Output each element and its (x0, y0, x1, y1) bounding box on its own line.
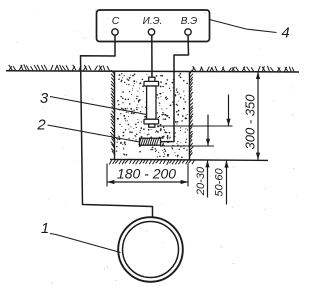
terminal I.E. (148, 29, 154, 35)
svg-text:180 - 200: 180 - 200 (117, 166, 176, 182)
pit bottom hatching (109, 159, 195, 164)
dimension 180-200 extension line left (106, 164, 108, 187)
dimension 20-30 lower shaft (205, 160, 209, 197)
instrument box 4 (97, 10, 210, 42)
leader line label 3 to electrode (50, 97, 147, 115)
wire V.E. terminal to block (161, 35, 189, 141)
pit left wall hatching (110, 70, 115, 155)
electrode 3 top cap (144, 81, 159, 86)
extension line at block bottom level (161, 145, 214, 147)
dimension 20-30 upper arrow (206, 115, 210, 146)
pit backfill stipple (116, 73, 188, 158)
block 2 (hatched electrode plate) (139, 138, 161, 145)
ground hatching left of pit (9, 64, 110, 70)
dimension line 300-350 (256, 72, 260, 160)
electrode 3 top nub (149, 77, 155, 82)
leader line label 1 to pipe (50, 234, 121, 253)
svg-text:3: 3 (40, 90, 49, 107)
dimension 50-60 upper arrow (226, 95, 230, 126)
pit left wall line (114, 71, 116, 159)
terminal C (112, 29, 118, 35)
dimension 50-60 lower shaft (224, 160, 228, 204)
leader line to label 4 (210, 20, 277, 33)
electrode 3 body (147, 86, 156, 119)
wire C terminal to pipe (81, 35, 153, 218)
svg-text:20-30: 20-30 (195, 166, 207, 196)
dimension line 180-200 (107, 180, 188, 184)
svg-text:В.Э: В.Э (181, 16, 197, 27)
electrode 3 bottom nub (149, 124, 155, 127)
svg-text:2: 2 (36, 117, 46, 134)
terminal V.E. (185, 29, 191, 35)
wire I.E. terminal to electrode (151, 35, 153, 78)
dimension 180-200 extension line right (187, 164, 189, 187)
pipe 1 outer circle (118, 217, 183, 282)
leader line label 2 to block (48, 125, 140, 142)
extension line at electrode bottom level (157, 125, 233, 127)
svg-text:4: 4 (281, 25, 289, 42)
electrode 3 bottom cap (144, 119, 159, 124)
ground hatching right of pit (192, 66, 294, 72)
pit right wall hatching (189, 70, 194, 157)
pipe 1 inner circle (123, 222, 179, 278)
svg-text:С: С (112, 15, 120, 27)
svg-text:300 - 350: 300 - 350 (243, 94, 258, 150)
svg-text:1: 1 (41, 220, 49, 237)
ground surface line (6, 71, 299, 72)
svg-text:И.Э.: И.Э. (143, 16, 163, 27)
pit bottom line with right extension (110, 159, 268, 160)
pit right wall line (189, 72, 191, 160)
svg-text:50-60: 50-60 (214, 168, 226, 197)
